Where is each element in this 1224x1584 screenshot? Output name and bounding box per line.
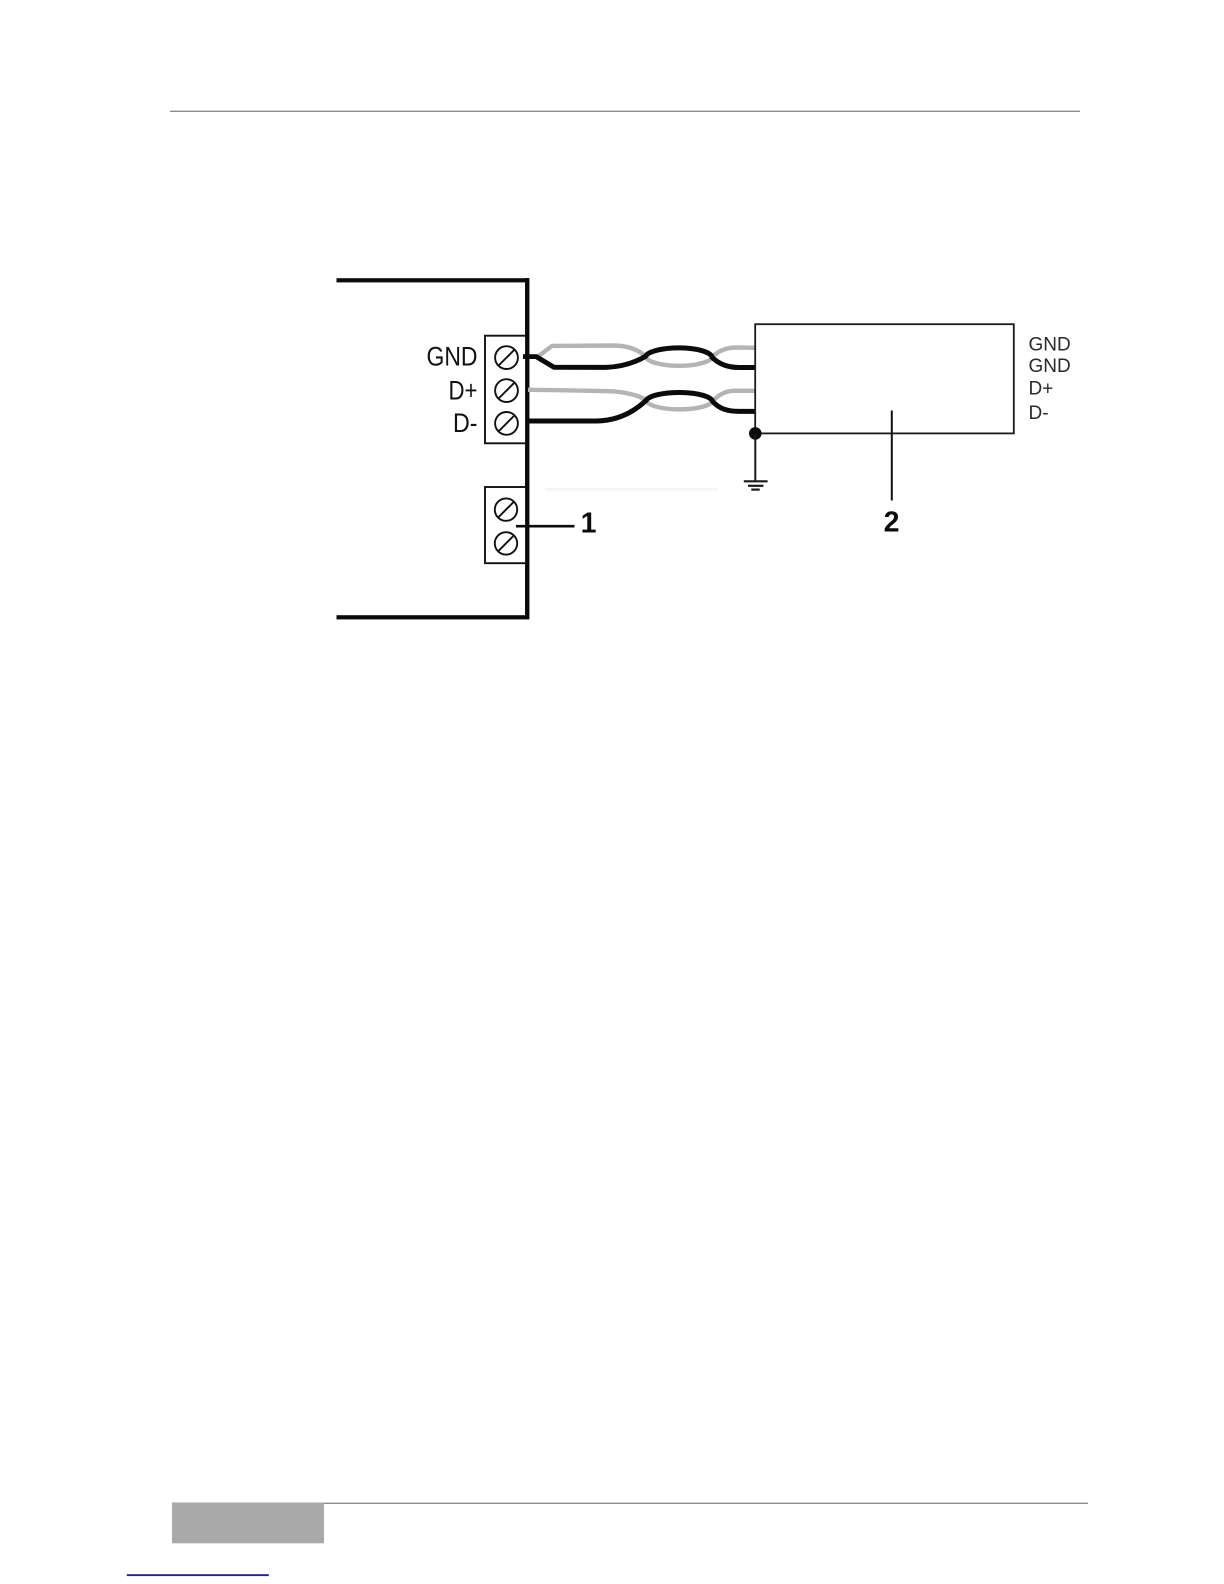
device M1 right edge (wire): [525, 278, 529, 619]
device U2 box: [755, 324, 1014, 433]
screw terminal TB2-1: [495, 498, 517, 520]
svg-text:GND: GND: [1029, 335, 1071, 356]
svg-text:D+: D+: [1029, 378, 1054, 399]
wire stub GND (black): [523, 354, 539, 359]
screw terminal TB1 D+: [495, 379, 518, 402]
svg-text:GND: GND: [427, 342, 478, 372]
svg-text:D-: D-: [453, 408, 478, 438]
footer link underline: [127, 1574, 269, 1576]
twisted pair P1 black wire: [536, 348, 755, 368]
device M1 right edge overdraw (thick wire over blocks): [525, 278, 529, 619]
footer redaction block: [172, 1503, 324, 1543]
top rule: [170, 111, 1080, 112]
svg-text:1: 1: [581, 508, 597, 540]
faint artifact streak: [545, 488, 718, 491]
twisted pair P1 gray wire: [538, 346, 755, 366]
junction node (dot): [749, 427, 762, 440]
screw terminal TB2-2: [495, 532, 517, 554]
twisted pair P2 black wire (from D-): [528, 392, 755, 421]
bottom rule: [172, 1503, 1088, 1504]
svg-text:D+: D+: [449, 375, 478, 405]
twisted pair P2 gray wire (from D+): [528, 390, 755, 410]
ground stem wire: [754, 433, 756, 481]
screw terminal TB1 GND: [495, 346, 518, 369]
leader line to callout 1: [516, 525, 575, 528]
terminal block TB1 (GND / D+ / D-): [485, 336, 527, 444]
device M1 bottom edge: [337, 615, 530, 619]
svg-text:2: 2: [884, 507, 900, 539]
device M1 top edge: [337, 278, 530, 282]
terminal block TB2: [485, 487, 527, 563]
svg-text:GND: GND: [1029, 356, 1071, 377]
screw terminal TB1 D-: [495, 412, 518, 435]
leader line to callout 2: [891, 411, 893, 501]
svg-text:D-: D-: [1029, 403, 1049, 424]
ground symbol: [744, 481, 768, 489]
